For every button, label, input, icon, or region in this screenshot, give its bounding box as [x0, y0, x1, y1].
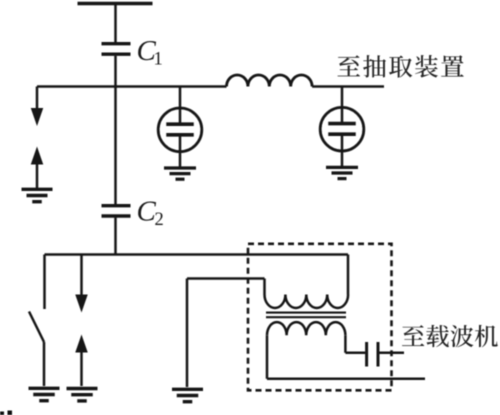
svg-text:2: 2: [155, 210, 164, 230]
svg-text:1: 1: [154, 50, 163, 70]
svg-text:C: C: [137, 196, 157, 228]
